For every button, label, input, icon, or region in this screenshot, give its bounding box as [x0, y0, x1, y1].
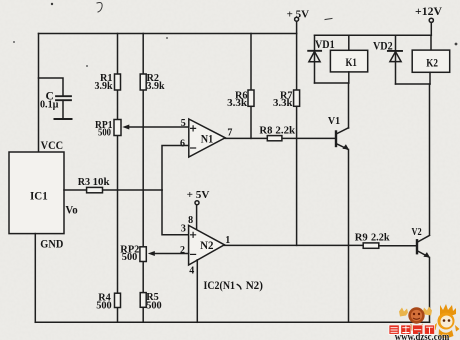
svg-text:2: 2	[180, 245, 185, 256]
wire N2 pin4 to ground rail	[196, 260, 198, 323]
resistor R7	[294, 90, 300, 106]
svg-text:V1: V1	[328, 115, 340, 127]
svg-text:N2: N2	[200, 240, 214, 252]
svg-text:VCC: VCC	[41, 138, 64, 152]
wire column R6	[250, 34, 252, 139]
wire capacitor branch	[39, 78, 64, 96]
watermark dzsc	[389, 304, 460, 340]
svg-text:5: 5	[181, 118, 186, 129]
wire +5V column through R7	[296, 21, 298, 245]
svg-text:N2): N2)	[246, 278, 263, 292]
svg-text:GND: GND	[40, 238, 63, 250]
svg-text:3.9k: 3.9k	[147, 80, 166, 92]
svg-text:2.2k: 2.2k	[275, 124, 296, 136]
svg-text:500: 500	[122, 251, 138, 263]
transistor V2	[412, 226, 431, 258]
relay K1	[330, 35, 367, 83]
capacitor C 0.1u	[55, 96, 72, 119]
svg-text:3.3k: 3.3k	[227, 97, 248, 109]
op-amp N1	[180, 118, 232, 157]
wire V1 collector up	[348, 83, 350, 128]
potentiometer RP2	[120, 244, 146, 263]
wire junction column to N2 pin3	[162, 190, 189, 235]
svg-text:R9: R9	[355, 232, 368, 244]
svg-text:500: 500	[96, 299, 112, 311]
wire K2 to V2 collector	[429, 84, 431, 235]
transistor V1	[328, 115, 349, 150]
svg-text:VD2: VD2	[373, 40, 393, 52]
resistor R1	[115, 74, 121, 90]
watermark red text	[389, 325, 435, 334]
relay K2	[412, 35, 450, 84]
watermark mascot right	[432, 304, 460, 339]
block IC1	[9, 138, 78, 250]
svg-text:N1: N1	[201, 133, 214, 145]
wire N1 output line to V1 base	[225, 137, 335, 139]
svg-text:Vo: Vo	[65, 205, 78, 217]
wire RP1 wiper to N1 pin5 with arrow	[122, 125, 189, 130]
wire VD2-K2 bottom	[396, 83, 431, 85]
svg-text:6: 6	[180, 138, 185, 149]
op-amp N2	[180, 215, 230, 276]
resistor R8	[267, 136, 282, 141]
scan noise specks	[13, 3, 457, 68]
svg-text:K1: K1	[346, 55, 357, 69]
diode VD1	[308, 35, 335, 83]
terminal +5V mid	[187, 189, 210, 230]
svg-text:V2: V2	[412, 226, 423, 238]
svg-text:IC2(N1: IC2(N1	[204, 278, 236, 292]
svg-text:IC1: IC1	[30, 190, 48, 202]
svg-text:3.9k: 3.9k	[95, 80, 114, 92]
svg-text:+12V: +12V	[415, 6, 443, 18]
svg-text:R3: R3	[78, 176, 91, 188]
resistor R5	[140, 293, 146, 308]
svg-text:0.1µ: 0.1µ	[40, 100, 59, 111]
resistor R4	[115, 293, 121, 307]
label IC2(N1,N2)	[204, 278, 263, 292]
wire VD1-K1 bottom	[315, 82, 349, 84]
wire left vertical to VCC	[38, 34, 40, 153]
resistor R6	[248, 90, 254, 106]
wire column R2 RP2 R5	[142, 34, 144, 323]
wire ground rail bottom	[35, 321, 429, 323]
svg-text:3: 3	[181, 223, 186, 234]
terminal +12V	[415, 6, 443, 35]
wire IC1 GND down	[34, 234, 36, 323]
svg-text:3.3k: 3.3k	[273, 97, 293, 109]
terminal +5V top	[287, 9, 309, 22]
svg-text:K2: K2	[426, 55, 438, 69]
svg-text:+ 5V: + 5V	[187, 189, 210, 201]
wire R9 to V2 base	[379, 245, 417, 247]
wire Vo to R3 line	[64, 189, 162, 191]
resistor R9	[363, 243, 379, 248]
resistor R3	[87, 187, 103, 192]
watermark mascot left	[399, 307, 432, 332]
wire column R1 RP1 R4	[117, 34, 119, 323]
svg-text:VD1: VD1	[315, 39, 335, 51]
svg-text:4: 4	[189, 265, 194, 276]
svg-text:www.dzsc.com: www.dzsc.com	[395, 332, 450, 340]
resistor R2	[140, 74, 146, 90]
svg-text:500: 500	[146, 299, 162, 311]
wire V1 emitter down	[348, 150, 350, 323]
svg-text:7: 7	[227, 128, 232, 139]
svg-text:10k: 10k	[93, 176, 111, 188]
svg-text:1: 1	[225, 235, 230, 246]
svg-text:2.2k: 2.2k	[371, 232, 390, 244]
wire top +5V rail	[39, 33, 297, 35]
svg-text:R8: R8	[259, 124, 272, 136]
wire V2 emitter down	[429, 258, 431, 323]
potentiometer RP1	[95, 119, 121, 139]
wire top +12V rail	[315, 34, 432, 36]
diode VD2	[373, 35, 402, 84]
svg-text:500: 500	[98, 126, 111, 138]
wire N2 output line	[224, 244, 363, 246]
svg-text:8: 8	[188, 215, 193, 226]
wire N2 pin2 to RP2 wiper with arrow	[148, 251, 189, 256]
wire N1 pin6 feedback	[162, 146, 189, 191]
